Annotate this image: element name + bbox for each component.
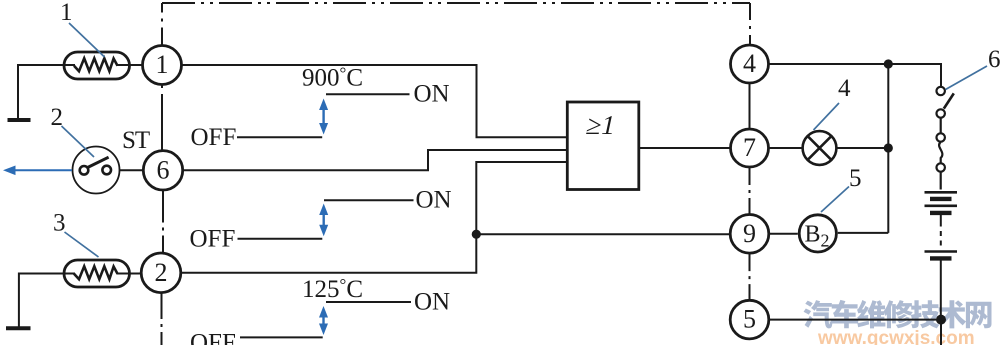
svg-text:ST: ST (122, 127, 150, 154)
threshold step 900C : OFF level line (237, 136, 322, 138)
wire node 9 to relay B2 (769, 233, 798, 235)
svg-text:6: 6 (157, 155, 170, 184)
dash-dot link node7-node9 (749, 167, 751, 215)
dash-dot below node 2 (161, 293, 163, 345)
svg-text:ON: ON (414, 81, 450, 108)
junction dot (941,319.6) (936, 315, 946, 325)
wire node4-node7 (749, 83, 751, 129)
callout line label 1 (69, 23, 105, 57)
svg-text:2: 2 (51, 104, 64, 131)
node circle 5 (730, 300, 769, 339)
wire node 4 to switch 6 (769, 64, 942, 87)
blue double arrow 1 (319, 99, 328, 135)
svg-text:www.qcwxjs.com: www.qcwxjs.com (817, 328, 975, 345)
node circle 1 (143, 46, 182, 85)
svg-text:1: 1 (60, 0, 73, 26)
dash-dot connector rail (top) (162, 3, 750, 46)
node circle 2 (141, 253, 181, 293)
wire node 7 to lamp (769, 147, 802, 149)
junction dot (888,64) (884, 59, 893, 68)
wire node 5 to battery minus (769, 320, 941, 345)
svg-text:2: 2 (155, 258, 168, 287)
wire R3 to node 2 (117, 273, 142, 275)
svg-text:9: 9 (743, 219, 756, 248)
blue double arrow 3 (319, 306, 328, 335)
svg-text:OFF: OFF (191, 124, 237, 151)
wire B : node 6 to OR-gate input 2 (183, 150, 567, 170)
OR gate output wire to node 7 (639, 147, 731, 149)
svg-text:5: 5 (849, 165, 862, 192)
watermark line 1 : site name glyphs (804, 300, 992, 329)
svg-text:4: 4 (743, 49, 756, 78)
callout line label 5 (821, 187, 849, 213)
svg-text:1: 1 (156, 50, 169, 79)
svg-text:ON: ON (416, 187, 452, 214)
dash-dot link node9-node5 (749, 253, 751, 300)
node circle 6 (143, 151, 182, 190)
threshold step 125C : OFF level line (240, 336, 323, 338)
svg-text:6: 6 (988, 46, 1000, 73)
ground G3 (left of sensor 3) (6, 274, 75, 329)
threshold step 900C : ON level line (326, 93, 410, 95)
callout line label 4 (814, 103, 840, 130)
blue double arrow 2 (319, 204, 328, 237)
blue arrow (to starter ST) (3, 166, 72, 176)
wire C : node 2 up to OR-gate input 3 (181, 162, 567, 273)
ground G1 (left of sensor 1) (8, 65, 76, 120)
relay B2 (component 5) (799, 215, 836, 252)
wire R1 to node 1 (117, 64, 143, 66)
svg-text:OFF: OFF (190, 226, 236, 253)
junction dot (476,234) (472, 230, 481, 239)
svg-text:ON: ON (414, 289, 450, 316)
wire lamp to bus (838, 147, 889, 149)
dash-dot link node1-node6 (161, 85, 163, 150)
threshold step mid : OFF level line (238, 238, 323, 240)
blue double arrows (319, 99, 328, 336)
vertical bus wire x=888 (887, 64, 889, 233)
wire ST to node 6 (120, 169, 144, 171)
threshold step 125C : ON level line (326, 301, 411, 303)
callout line label 3 (65, 232, 99, 257)
wire B2 to bus (838, 232, 889, 234)
svg-text:125°C: 125°C (302, 275, 363, 303)
svg-text:5: 5 (743, 305, 756, 334)
node circle 9 (730, 215, 769, 254)
blue callout lines (62, 23, 988, 257)
ignition switch 6 contacts (937, 87, 954, 190)
threshold step mid : ON level line (324, 199, 414, 201)
svg-text:4: 4 (838, 75, 851, 102)
op-amp / OR gate U1 (567, 102, 639, 190)
callout line label 2 (62, 126, 95, 157)
svg-text:900°C: 900°C (302, 64, 363, 92)
resistor R3 (exhaust temp sensor 3) (64, 260, 130, 287)
battery BAT (925, 192, 958, 319)
svg-text:7: 7 (743, 133, 756, 162)
node circle 7 (731, 129, 769, 167)
lamp 4 (warning light) (803, 131, 837, 165)
junction dot (888,148) (884, 143, 893, 152)
wire junction to node 9 (476, 233, 730, 235)
callout line label 6 (946, 66, 988, 90)
dash-dot link node6-node2 (162, 191, 164, 253)
switch ST (component 2) (73, 147, 120, 194)
wire A : node 1 to OR-gate input 1 (182, 65, 568, 137)
resistor R1 (exhaust temp sensor 1) (64, 52, 130, 79)
node circle 4 (731, 45, 769, 83)
svg-text:OFF: OFF (190, 330, 236, 345)
svg-text:3: 3 (53, 210, 66, 237)
